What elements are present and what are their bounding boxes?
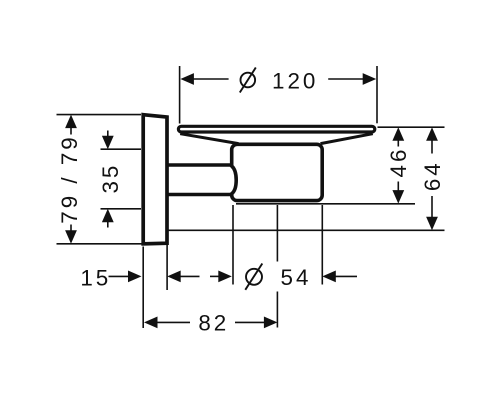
extension line top of dims 46 and 64 bbox=[378, 126, 445, 128]
diameter symbol of dim 120 bbox=[240, 68, 256, 93]
dim line 46 bottom tail bbox=[397, 182, 399, 192]
extension line bottom of dim 35 bbox=[101, 208, 142, 210]
extension line right of dim 54 bbox=[321, 205, 323, 285]
arrowhead dim 64 bottom bbox=[426, 217, 438, 231]
arrowhead dim 82 left bbox=[144, 317, 158, 329]
dish underside right slant bbox=[321, 134, 373, 144]
extension line bottom of dim 64 bbox=[167, 229, 445, 231]
extension line bottom of dim 79/79 bbox=[57, 243, 143, 245]
extension line right of dim 15 bbox=[166, 231, 168, 290]
arrowhead dim 35 bottom bbox=[102, 209, 114, 223]
dim 15 right tail bbox=[180, 275, 200, 277]
svg-text:79 / 79: 79 / 79 bbox=[57, 134, 82, 223]
arrowhead dim 15 right bbox=[167, 271, 181, 283]
dim line 64 bottom tail bbox=[431, 196, 433, 218]
arrowhead dim 54 left bbox=[218, 271, 232, 283]
center extension line lower segment bbox=[276, 292, 278, 328]
dim line 46 top tail bbox=[397, 140, 399, 147]
svg-text:46: 46 bbox=[386, 147, 411, 178]
arrowhead dim 79/79 top bbox=[65, 115, 77, 129]
extension line top of dim 79/79 bbox=[57, 114, 142, 116]
arrowhead dim 46 bottom bbox=[392, 190, 404, 204]
dim line 64 top tail bbox=[431, 140, 433, 154]
dim line 35 bottom tail bbox=[107, 221, 109, 227]
arrowhead dim 35 top bbox=[102, 136, 114, 150]
svg-text:54: 54 bbox=[281, 265, 312, 290]
arrowhead dim 46 top bbox=[392, 127, 404, 141]
extension line left of dims 15 and 82 bbox=[142, 247, 144, 329]
svg-text:120: 120 bbox=[272, 68, 318, 93]
wall plate bbox=[143, 115, 167, 244]
extension line bottom of dim 46 bbox=[236, 203, 415, 205]
diameter symbol of dim 54 bbox=[245, 264, 262, 290]
svg-text:35: 35 bbox=[98, 163, 123, 194]
dim line 120 left segment bbox=[193, 78, 229, 80]
svg-text:64: 64 bbox=[420, 160, 445, 191]
extension line right of dim 120 bbox=[376, 66, 378, 123]
dim line 79/79 top segment bbox=[70, 127, 72, 135]
extension line top of dim 35 bbox=[101, 148, 142, 150]
leader line of dim 15 bbox=[109, 275, 130, 277]
dim 82 left tail bbox=[157, 321, 190, 323]
arrowhead dim 82 right bbox=[264, 317, 278, 329]
dish underside left slant bbox=[180, 134, 238, 144]
svg-text:82: 82 bbox=[198, 311, 229, 336]
arrowhead dim 120 right bbox=[363, 73, 377, 85]
extension line left of dim 54 bbox=[232, 205, 234, 285]
arrowhead dim 120 left bbox=[180, 73, 194, 85]
arm bottom line bbox=[167, 193, 232, 197]
dim line 79/79 bottom segment bbox=[70, 225, 72, 232]
dim line 120 right segment bbox=[328, 78, 364, 80]
arrowhead dim 15 left bbox=[128, 271, 142, 283]
extension line left of dim 120 bbox=[179, 66, 181, 124]
dim line 35 top tail bbox=[107, 131, 109, 138]
arrowhead dim 54 right bbox=[322, 271, 336, 283]
center extension line upper segment bbox=[276, 205, 278, 262]
arm top line bbox=[167, 163, 232, 167]
dim 54 left tail bbox=[210, 275, 219, 277]
cup (glass holder body) bbox=[232, 144, 323, 200]
arrowhead dim 79/79 bottom bbox=[65, 230, 77, 244]
svg-text:15: 15 bbox=[80, 266, 111, 291]
dish rim (stadium bar) bbox=[178, 126, 374, 132]
dim 54 right tail bbox=[335, 275, 357, 277]
dim 82 right tail bbox=[235, 321, 265, 323]
arrowhead dim 64 top bbox=[426, 127, 438, 141]
